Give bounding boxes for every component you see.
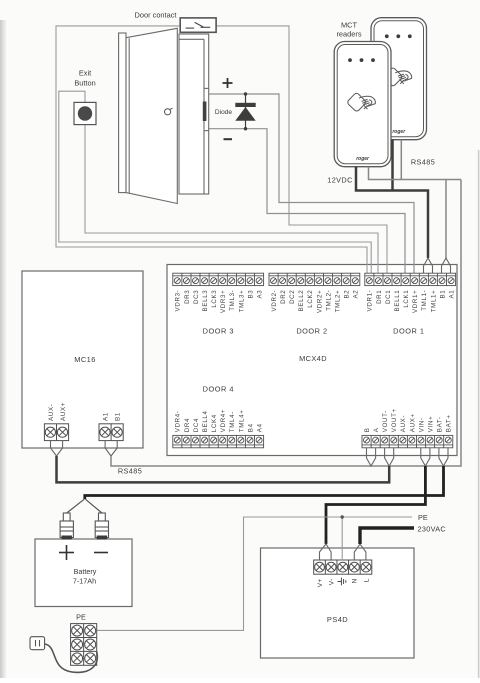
wire: MC16 AUX stub xyxy=(51,441,63,456)
svg-text:TML1-: TML1- xyxy=(421,290,428,311)
terminal strip DOOR3 xyxy=(173,273,264,285)
svg-text:VIN+: VIN+ xyxy=(428,416,435,433)
label: battery plus xyxy=(59,545,74,560)
wire: 230VAC mains xyxy=(360,528,414,544)
battery xyxy=(35,539,132,607)
label: minus xyxy=(224,138,233,140)
terminal strip DOOR1 xyxy=(365,273,456,285)
svg-text:Exit: Exit xyxy=(79,69,91,78)
svg-text:DOOR 3: DOOR 3 xyxy=(203,327,234,336)
wire: VIN to PS4D xyxy=(326,466,425,544)
wire: MC16 AUX to VOUT xyxy=(57,456,390,482)
svg-text:A1: A1 xyxy=(103,412,110,421)
svg-text:DR2: DR2 xyxy=(280,290,287,304)
door leaf xyxy=(126,28,177,203)
svg-text:VOUT+: VOUT+ xyxy=(391,408,398,432)
svg-text:A: A xyxy=(373,427,380,432)
wire: PE xyxy=(97,517,412,630)
svg-text:PE: PE xyxy=(418,513,428,522)
svg-text:VDR4+: VDR4+ xyxy=(220,409,227,432)
svg-text:DR3: DR3 xyxy=(184,290,191,304)
wire: battery leads xyxy=(67,499,102,513)
mains plug xyxy=(30,637,45,650)
wire: exit button bottom to DR1 xyxy=(85,125,378,274)
junction: PE node xyxy=(341,515,344,518)
svg-text:DC3: DC3 xyxy=(193,290,200,304)
svg-text:DOOR 4: DOOR 4 xyxy=(203,385,234,394)
svg-text:VDR3-: VDR3- xyxy=(175,290,182,312)
svg-text:DC4: DC4 xyxy=(193,418,200,432)
wire: MC16 RS485 stub xyxy=(105,441,117,456)
svg-text:VDR3+: VDR3+ xyxy=(220,290,227,313)
svg-text:TML3+: TML3+ xyxy=(238,290,245,313)
svg-text:BAT-: BAT- xyxy=(437,416,444,432)
svg-text:PE: PE xyxy=(76,613,86,622)
wire: B/A stub xyxy=(367,448,376,466)
svg-text:DR1: DR1 xyxy=(376,290,383,304)
wire: PS4D NL stub xyxy=(354,544,366,561)
svg-text:BELL3: BELL3 xyxy=(202,290,209,312)
svg-text:TML1+: TML1+ xyxy=(430,290,437,313)
terminal strip POWER xyxy=(362,435,453,447)
wire: plug cable xyxy=(45,644,98,672)
svg-text:VDR2-: VDR2- xyxy=(271,290,278,312)
battery connector positive xyxy=(60,513,73,540)
door frame right post xyxy=(179,34,209,194)
svg-text:BELL2: BELL2 xyxy=(298,290,305,312)
svg-text:BELL4: BELL4 xyxy=(202,410,209,432)
wire: TML1 stub xyxy=(424,258,433,273)
door handle xyxy=(165,108,173,115)
svg-text:A4: A4 xyxy=(256,423,263,432)
svg-text:MC16: MC16 xyxy=(74,355,96,364)
svg-text:PS4D: PS4D xyxy=(327,615,348,624)
terminal strip DOOR4 xyxy=(173,435,264,447)
wire: battery to BAT xyxy=(85,466,444,499)
svg-text:DC1: DC1 xyxy=(385,290,392,304)
svg-text:L: L xyxy=(363,578,370,582)
svg-text:DOOR 1: DOOR 1 xyxy=(393,327,424,336)
svg-text:A2: A2 xyxy=(353,290,360,299)
wire: door contact right to DC1 xyxy=(216,26,387,273)
wire: VOUT stub xyxy=(385,448,394,466)
svg-text:LCK4: LCK4 xyxy=(211,414,218,432)
svg-text:TML4-: TML4- xyxy=(229,411,236,432)
terminal block PS4D mains xyxy=(314,560,372,574)
svg-text:DR4: DR4 xyxy=(184,418,191,432)
svg-text:Door contact: Door contact xyxy=(135,11,177,20)
PS4D power supply xyxy=(261,548,415,658)
wire: readers RS485 bus to B1/A1 xyxy=(369,167,462,180)
svg-text:AUX+: AUX+ xyxy=(409,413,416,432)
svg-text:VDR2+: VDR2+ xyxy=(316,290,323,313)
svg-text:Battery: Battery xyxy=(74,567,97,576)
svg-text:B4: B4 xyxy=(247,423,254,432)
svg-text:Diode: Diode xyxy=(215,109,233,116)
label: PE symbol xyxy=(338,578,346,586)
svg-text:B1: B1 xyxy=(115,412,122,421)
svg-text:DOOR 2: DOOR 2 xyxy=(296,327,327,336)
svg-text:AUX-: AUX- xyxy=(400,415,407,432)
diode D1 xyxy=(235,92,255,130)
svg-text:RS485: RS485 xyxy=(118,467,142,476)
svg-text:MCT: MCT xyxy=(341,20,357,29)
lock strike plate xyxy=(203,102,207,122)
wire: BAT stub xyxy=(439,448,448,466)
svg-text:V+: V+ xyxy=(317,578,324,587)
svg-text:VDR1-: VDR1- xyxy=(367,290,374,312)
svg-text:LCK3: LCK3 xyxy=(211,290,218,308)
wire: lock negative to LCK1 xyxy=(209,129,405,274)
svg-text:LCK1: LCK1 xyxy=(403,290,410,308)
svg-text:RS485: RS485 xyxy=(411,158,435,167)
svg-text:VIN-: VIN- xyxy=(418,417,425,432)
svg-text:DC2: DC2 xyxy=(289,290,296,304)
door contact S1 xyxy=(180,18,216,32)
svg-text:Button: Button xyxy=(74,79,95,88)
door frame left post xyxy=(119,33,126,193)
svg-text:TML2+: TML2+ xyxy=(335,290,342,313)
svg-text:BAT+: BAT+ xyxy=(446,414,453,432)
wire: B1/A1 stub xyxy=(442,258,451,273)
svg-text:B: B xyxy=(364,427,371,432)
wire: VIN stub xyxy=(421,448,430,466)
MCT reader front xyxy=(334,42,391,167)
terminal strip DOOR2 xyxy=(269,273,360,285)
MC16 controller xyxy=(22,271,143,448)
MCX4D board xyxy=(167,265,457,456)
svg-text:roger: roger xyxy=(356,156,370,162)
wire: lock positive to VDR1+ xyxy=(209,94,414,273)
wire: RS485 down to MC16 xyxy=(111,180,461,467)
svg-text:roger: roger xyxy=(392,129,406,135)
svg-text:BELL1: BELL1 xyxy=(394,290,401,312)
svg-text:7-17Ah: 7-17Ah xyxy=(73,577,96,586)
svg-text:B1: B1 xyxy=(439,290,446,299)
svg-text:MCX4D: MCX4D xyxy=(299,354,327,363)
svg-text:N: N xyxy=(352,578,359,583)
svg-text:A1: A1 xyxy=(448,290,455,299)
svg-text:AUX-: AUX- xyxy=(48,404,55,421)
wire: door contact left to VDR1- xyxy=(56,26,367,273)
svg-text:VDR1+: VDR1+ xyxy=(412,290,419,313)
svg-text:V-: V- xyxy=(329,578,336,585)
wire: exit button top to VDR1- xyxy=(59,91,371,273)
svg-text:TML2-: TML2- xyxy=(325,290,332,311)
svg-text:230VAC: 230VAC xyxy=(418,525,446,534)
battery connector negative xyxy=(95,513,108,540)
svg-text:LCK2: LCK2 xyxy=(307,290,314,308)
svg-text:readers: readers xyxy=(336,30,361,39)
svg-text:TML4+: TML4+ xyxy=(238,410,245,433)
MCT reader rear xyxy=(371,18,427,140)
svg-text:VOUT-: VOUT- xyxy=(382,410,389,432)
label: battery minus xyxy=(94,552,108,554)
wire: PS4D V stub xyxy=(320,544,332,561)
label: plus xyxy=(223,78,233,88)
svg-text:TML3-: TML3- xyxy=(229,290,236,311)
terminal block PE block xyxy=(71,624,97,666)
svg-text:VDR4-: VDR4- xyxy=(175,410,182,432)
svg-text:12VDC: 12VDC xyxy=(327,176,353,185)
terminal block MC16 A1B1 xyxy=(99,424,123,441)
wire: readers 12VDC supply to TML1 xyxy=(356,167,428,258)
svg-text:AUX+: AUX+ xyxy=(60,402,67,421)
svg-text:B2: B2 xyxy=(344,290,351,299)
svg-text:A3: A3 xyxy=(256,290,263,299)
exit button xyxy=(74,102,96,124)
terminal block MC16 AUX xyxy=(44,424,68,441)
svg-text:B3: B3 xyxy=(247,290,254,299)
